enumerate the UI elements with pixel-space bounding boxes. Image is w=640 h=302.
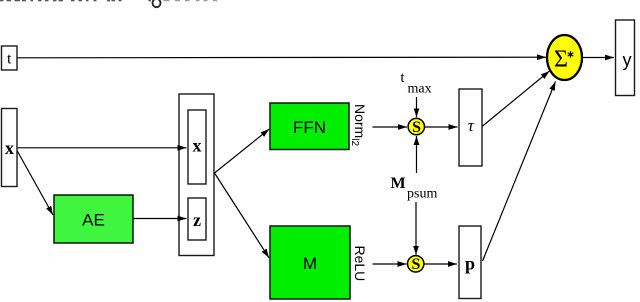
svg-text:τ: τ <box>468 116 475 135</box>
svg-text:psum: psum <box>407 187 437 202</box>
svg-text:S: S <box>412 256 421 273</box>
svg-text:x: x <box>193 136 202 156</box>
svg-text:Σ: Σ <box>554 47 568 73</box>
svg-text:ReLU: ReLU <box>352 246 368 282</box>
svg-text:FFN: FFN <box>293 118 326 137</box>
svg-text:M: M <box>303 254 317 273</box>
svg-text:M: M <box>391 175 406 192</box>
svg-text:AE: AE <box>82 211 105 230</box>
svg-text:y: y <box>623 50 632 70</box>
svg-text:max: max <box>408 82 432 97</box>
svg-text:p: p <box>465 254 475 274</box>
svg-text:t: t <box>7 51 12 68</box>
svg-text:S: S <box>412 119 421 136</box>
svg-text:z: z <box>193 210 201 230</box>
svg-text:x: x <box>5 138 14 158</box>
